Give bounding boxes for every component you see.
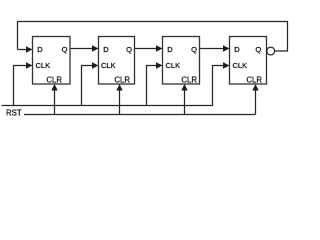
wire CLK branch FF1: [14, 66, 28, 106]
flip-flop U4: [230, 37, 267, 85]
arrow into CLK FF3: [156, 62, 163, 68]
wire CLK branch FF2: [82, 66, 94, 106]
flip-flop U3: [163, 37, 200, 85]
wire CLR riser FF4: [255, 89, 257, 115]
wire CLK branch FF3: [147, 66, 158, 106]
arrow into CLR FF3: [181, 84, 187, 91]
svg-text:CLR: CLR: [246, 76, 262, 85]
wire Q3 to D4: [200, 48, 225, 50]
svg-text:Q: Q: [62, 45, 68, 54]
inverter bubble on Q4: [267, 47, 275, 55]
wire CLR riser FF2: [119, 89, 121, 115]
arrow into CLR FF2: [116, 84, 122, 91]
svg-text:D: D: [167, 45, 173, 54]
wire Q2 to D3: [135, 48, 158, 50]
svg-text:Q: Q: [191, 45, 197, 54]
arrow into D FF3: [156, 45, 163, 51]
svg-text:CLR: CLR: [46, 76, 62, 85]
arrow into CLR FF1: [51, 84, 57, 91]
arrow into CLK FF2: [92, 62, 99, 68]
svg-text:CLK: CLK: [166, 61, 181, 70]
arrow into D FF2: [92, 45, 99, 51]
arrow into CLK FF4: [223, 62, 230, 68]
svg-text:RST: RST: [6, 109, 22, 118]
flip-flop U1: [33, 37, 71, 85]
wire Q1 to D2: [70, 48, 94, 50]
wire CLK rail: [2, 105, 214, 107]
svg-text:D: D: [234, 45, 240, 54]
wire CLR riser FF3: [184, 89, 186, 115]
wire into D of FF1: [18, 49, 28, 51]
flip-flop U2: [99, 37, 135, 85]
svg-text:Q: Q: [126, 45, 132, 54]
svg-text:CLK: CLK: [36, 61, 51, 70]
svg-text:CLK: CLK: [233, 61, 248, 70]
wire CLR riser FF1: [54, 89, 56, 115]
svg-text:CLR: CLR: [181, 76, 197, 85]
svg-text:D: D: [103, 45, 109, 54]
svg-text:D: D: [37, 45, 43, 54]
wire feedback: bubble out, up right side, across top, down left side: [18, 22, 288, 52]
svg-text:Q: Q: [255, 45, 261, 54]
wire CLK branch FF4: [213, 66, 225, 106]
wire RST rail: [24, 114, 256, 116]
arrow into CLK FF1: [26, 62, 33, 68]
svg-text:CLK: CLK: [101, 61, 116, 70]
arrow into CLR FF4: [252, 84, 258, 91]
arrow into D FF4: [223, 45, 230, 51]
svg-text:CLR: CLR: [114, 76, 130, 85]
arrow into D FF1: [26, 46, 33, 52]
